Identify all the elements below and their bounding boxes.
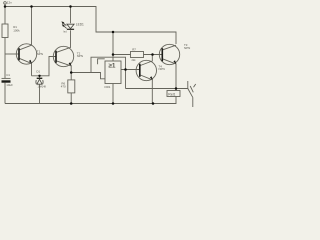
svg-text:C1: C1 — [6, 73, 10, 77]
svg-text:NPN: NPN — [184, 46, 190, 50]
svg-text:≥1: ≥1 — [108, 62, 116, 69]
svg-text:1N4148: 1N4148 — [38, 86, 47, 89]
svg-text:100k: 100k — [13, 29, 20, 33]
svg-text:470: 470 — [61, 84, 66, 88]
svg-text:12v: 12v — [7, 1, 12, 5]
svg-text:LED1: LED1 — [76, 23, 84, 27]
svg-text:NPN: NPN — [159, 67, 165, 71]
svg-text:OR1: OR1 — [104, 85, 111, 89]
svg-text:NPN: NPN — [77, 54, 83, 58]
svg-text:10uF: 10uF — [6, 83, 13, 87]
svg-text:Rel1: Rel1 — [168, 93, 175, 97]
svg-text:NPN: NPN — [37, 52, 43, 56]
svg-text:D1: D1 — [36, 69, 40, 73]
svg-text:R7: R7 — [132, 47, 136, 51]
